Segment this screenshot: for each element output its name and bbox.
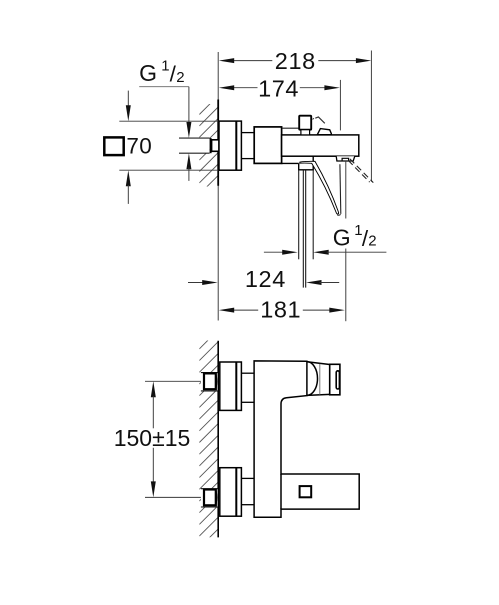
shower pipe inner	[302, 170, 304, 288]
check valve outlet under bar	[336, 156, 355, 161]
leader line G 1/2 upper	[139, 86, 189, 88]
bottom escutcheon bottom view	[220, 468, 242, 517]
wall line bottom view	[217, 341, 219, 538]
svg-text:150±15: 150±15	[114, 425, 191, 451]
svg-text:70: 70	[126, 133, 152, 158]
svg-text:124: 124	[245, 266, 286, 292]
lever wedge	[317, 129, 331, 135]
faucet body bottom view (vertical bar + arm + spout)	[254, 361, 359, 517]
top escutcheon bottom view	[220, 362, 242, 410]
cartridge ring top line	[282, 127, 299, 129]
lever front edge line	[339, 164, 342, 214]
handle knob top view	[299, 116, 311, 130]
extension line 174	[339, 80, 341, 130]
lever sketch tick	[313, 118, 314, 119]
wall hatching top view	[199, 96, 218, 218]
top neck bottom view	[241, 372, 254, 374]
handle cone base arc	[307, 362, 318, 396]
phantom lever dashed lines	[350, 159, 373, 183]
G 1/2 pipe arrows	[264, 251, 285, 253]
svg-text:1: 1	[161, 58, 169, 75]
lever blade (solid, pointing down)	[300, 161, 339, 214]
wall hatching bottom view	[199, 330, 218, 571]
faucet body bar top view	[282, 135, 359, 156]
dimension 181	[232, 309, 332, 311]
dimension 174	[232, 87, 327, 89]
extension line 218	[370, 51, 372, 182]
body bottom band line	[282, 162, 299, 164]
arrow G 1/2 lower (supply stub)	[186, 153, 191, 169]
bottom neck bottom view	[241, 477, 254, 479]
extension line 181	[345, 161, 347, 219]
dimension 124	[188, 282, 204, 284]
svg-text:2: 2	[176, 69, 184, 86]
dimension 70 arrows	[127, 91, 129, 106]
label square 70	[104, 137, 123, 155]
bottom union square nut	[201, 489, 218, 507]
shower outlet block	[299, 156, 314, 170]
svg-text:G: G	[333, 224, 351, 250]
handle cone shading line	[319, 364, 321, 395]
aerator square on spout	[300, 486, 312, 497]
handle cone outline	[307, 362, 330, 365]
knob base	[301, 130, 310, 135]
dimension 150±15 extension lines	[145, 380, 204, 382]
handle end cap	[330, 364, 340, 395]
dimension 218	[232, 60, 358, 62]
svg-text:181: 181	[260, 297, 301, 323]
svg-text:174: 174	[258, 75, 299, 101]
dimension 70 extension lines	[119, 120, 219, 122]
lever sketch caret	[315, 117, 325, 123]
supply stub pipe	[179, 138, 210, 153]
svg-text:218: 218	[275, 48, 316, 74]
wall line top view (also extension line for dims)	[217, 52, 219, 321]
shower pipe outer (G 1/2 thread)	[298, 170, 300, 259]
escutcheon top view	[219, 121, 241, 170]
handle slot	[336, 371, 339, 389]
svg-text:2: 2	[368, 233, 376, 250]
dimension 150±15	[151, 381, 156, 397]
stub end cap	[210, 138, 212, 153]
top union square nut	[201, 373, 218, 391]
stub nipple	[212, 140, 219, 152]
neck top view	[241, 132, 254, 134]
svg-text:G: G	[139, 60, 157, 86]
connection nut top view	[254, 127, 281, 163]
